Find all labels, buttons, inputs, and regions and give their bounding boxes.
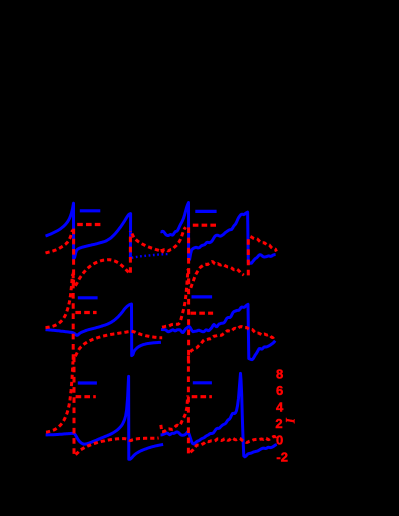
panel A blue dotted tail after 2nd spike [132,254,168,258]
panel E legend blue solid line [78,381,97,384]
panel B red dashed w trace segment 2 (dip and hump) [191,262,244,288]
panel A legend red dashed line [77,223,101,226]
panel F red dashed w trace segment 1 (noisy rise to peak) [161,395,188,431]
panel D red dashed vertical drop at event line [187,268,190,363]
svg-text:-2: -2 [276,450,288,465]
panel B legend red dashed line [193,224,217,227]
panel C red dashed w trace segment 2 (dip hump decline) [75,331,162,356]
svg-text:0: 0 [276,433,283,448]
panel A red dashed w trace segment 2 (dip and hump) [75,260,129,286]
panel D legend blue solid line [192,295,213,298]
panel E red dashed vertical drop at event line [73,357,76,458]
panel A red dashed vertical jump at spike 2 [129,232,132,273]
panel B red dashed vertical jump at spike 2 [247,237,250,275]
panel D red dashed w trace segment 2 (dip hump decline) [190,327,275,353]
svg-text:6: 6 [276,383,283,398]
panel A red dashed w trace segment 1 (rise to peak) [46,230,73,253]
panel C blue V trace (clean adapting, col1 row2) [46,304,161,356]
panel B red dashed w trace segment 1 (noisy rise) [161,227,186,251]
panel B red dashed w trace segment 3 (decay) [250,237,276,252]
panel A red dashed w trace segment 3 (decay) [132,234,164,253]
panel F red dashed vertical event line [187,356,190,458]
panel A blue V trace (clean tonic, col1 row1) [46,203,131,258]
panel B legend blue solid line [195,210,216,213]
svg-text:2: 2 [275,416,282,431]
panel E legend red dashed line [76,395,96,398]
panel C red dashed w trace segment 1 (sharp rise) [46,274,73,327]
panel B blue V trace (noisy tonic, col2 row1) [161,203,276,264]
panel D legend red dashed line [191,312,214,315]
svg-text:4: 4 [276,399,284,414]
svg-text:8: 8 [276,366,283,381]
panel E red dashed w trace segment 1 (tall sharp peak) [46,361,73,432]
panel C legend red dashed line [75,311,96,314]
panel F blue V trace (noisy single spike, col2 row3) [161,373,277,456]
panel A legend blue solid line [80,209,101,212]
panel C legend blue solid line [78,296,98,299]
panel F legend red dashed line [192,395,212,398]
panel F legend blue solid line [193,381,212,384]
panel B red dashed vertical drop at spike 1 [187,227,190,288]
panel D blue V trace (noisy adapting, col2 row2) [161,304,275,359]
panel A red dashed vertical drop at spike 1 [72,229,75,286]
svg-text:I: I [283,417,298,424]
panel E blue V trace (clean single spike, col1 row3) [46,376,164,459]
panel C red dashed vertical drop at event line [72,273,75,360]
panel F red dashed w trace segment 2 (dip and noisy flat) [190,436,276,452]
panel E red dashed w trace segment 2 (dip and flat) [76,438,159,455]
panel D red dashed w trace segment 1 (noisy sharp rise) [162,269,188,327]
